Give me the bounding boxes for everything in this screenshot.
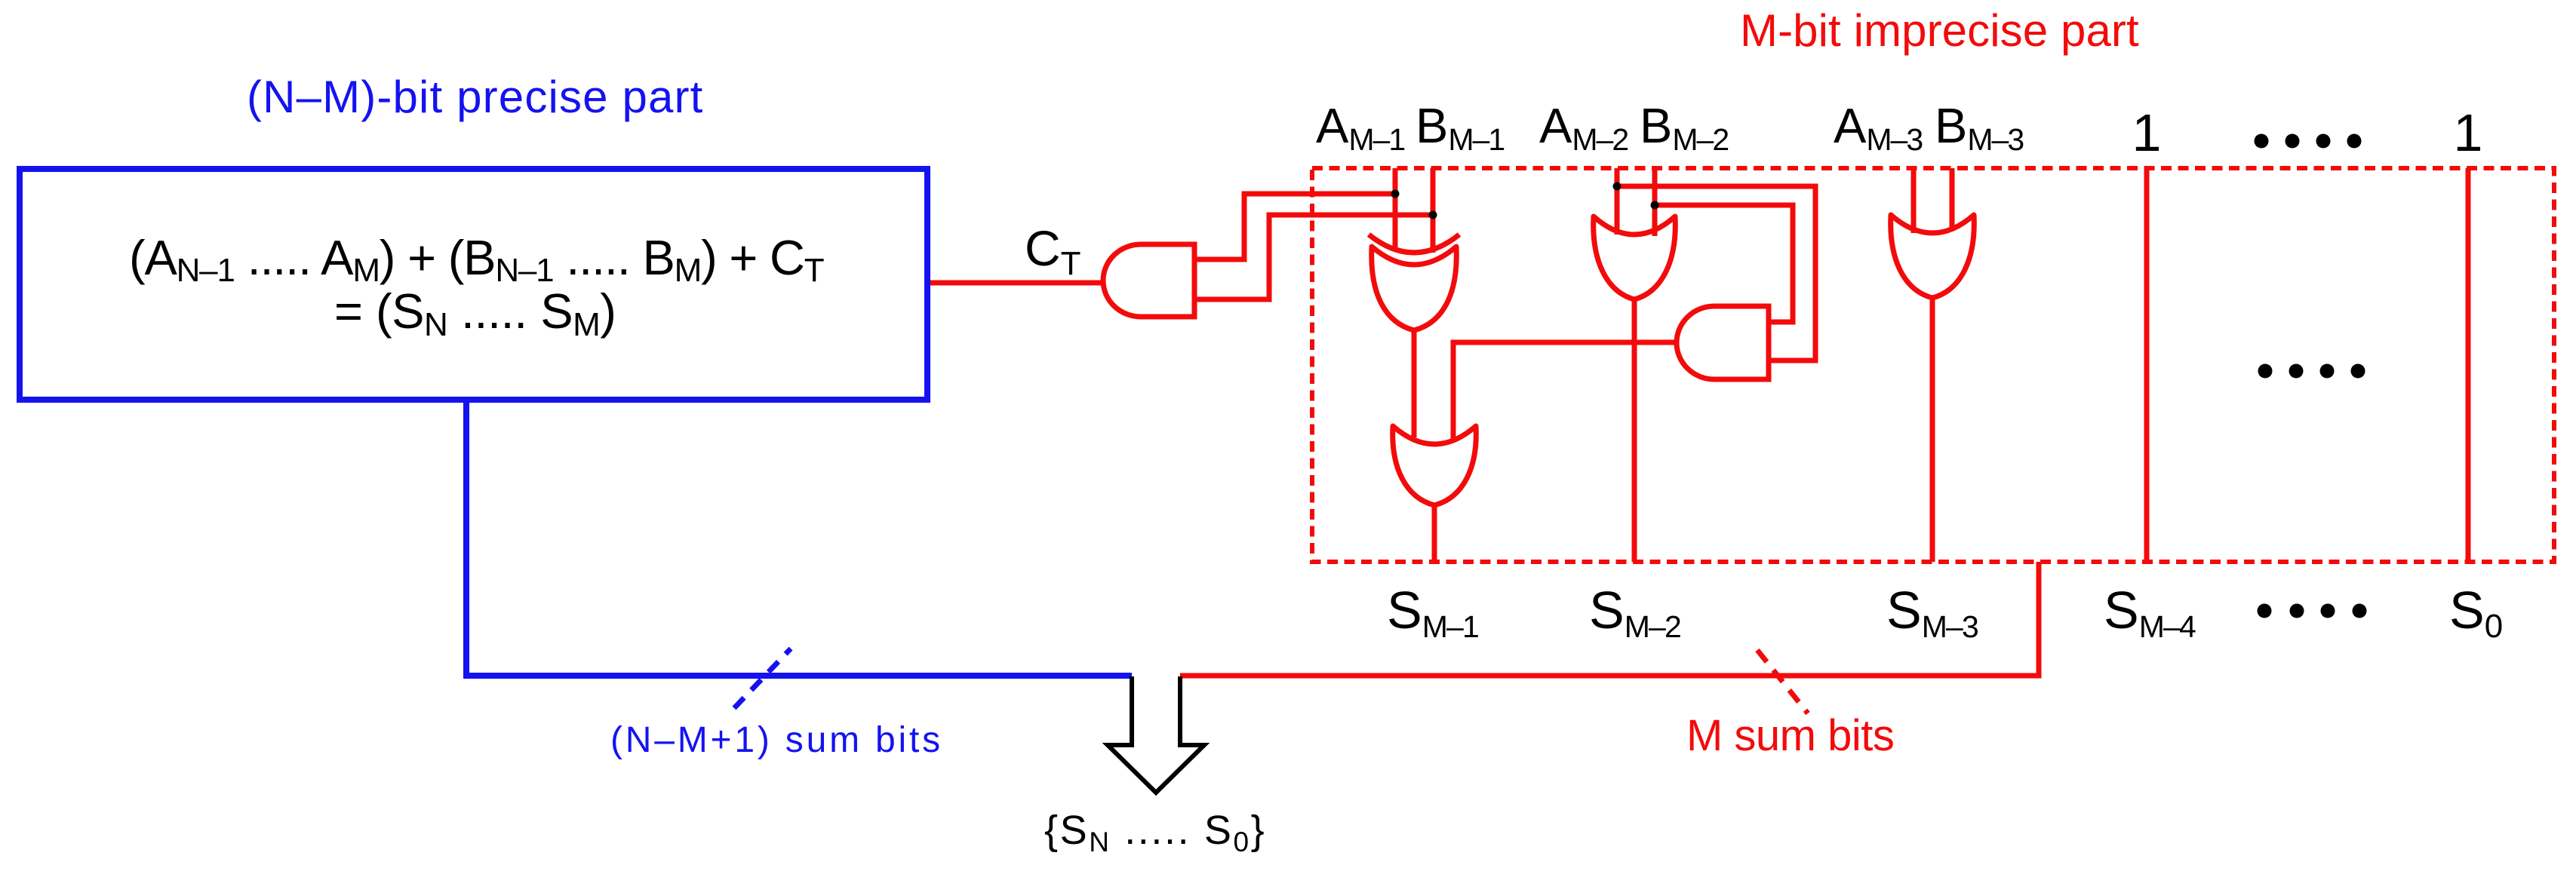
svg-text:(N–M+1) sum bits: (N–M+1) sum bits [610, 720, 943, 760]
wire: X1 output to O1 [1412, 330, 1417, 437]
junction dot B M-2 [1651, 201, 1659, 210]
wire: U2 output to O1 right input [1453, 342, 1676, 441]
wire: input A M-2 [1615, 168, 1620, 235]
junction dot A M-1 [1391, 190, 1400, 198]
svg-text:{SN ..... S0}: {SN ..... S0} [1044, 808, 1266, 857]
wire: blue sum bus from precise box [466, 400, 1132, 676]
result arrow [1108, 676, 1204, 793]
OR gate O2 (sum M-2) [1594, 216, 1676, 299]
XOR gate X1 (bit M-1) [1369, 235, 1459, 330]
wire: input A M-3 [1911, 168, 1917, 233]
svg-text:1: 1 [2454, 103, 2483, 162]
wire: U1 upper input to A M-1 column [1194, 194, 1393, 259]
wire: B M-2 to U2 upper input [1655, 205, 1793, 322]
svg-text:M-bit imprecise part: M-bit imprecise part [1740, 5, 2139, 56]
svg-text:(N–M)-bit precise part: (N–M)-bit precise part [247, 72, 703, 122]
AND gate U1 (carry truncation AND) [1103, 244, 1194, 317]
wire: CT from AND gate to precise box [930, 281, 1103, 286]
wire: S M-2 output [1632, 299, 1637, 562]
svg-text:1: 1 [2132, 103, 2162, 162]
OR gate O1 (sum M-1) [1393, 426, 1477, 505]
precise adder box [20, 169, 927, 400]
wire: bit 0 constant line [2466, 168, 2471, 562]
wire: bit M-4 constant line [2144, 168, 2150, 562]
imprecise part dashed box [1312, 168, 2554, 562]
junction dot A M-2 [1613, 182, 1622, 191]
bottom ellipsis dots [2258, 604, 2367, 618]
wire: A M-2 to U2 lower input [1617, 186, 1815, 360]
OR gate O3 (sum M-3) [1891, 215, 1975, 298]
wire: input B M-2 [1652, 168, 1658, 236]
svg-text:M sum bits: M sum bits [1686, 711, 1894, 760]
middle ellipsis dots [2258, 364, 2365, 379]
top ellipsis dots [2255, 134, 2362, 149]
red bus break slash [1757, 650, 1808, 713]
wire: input A M-1 [1393, 168, 1398, 250]
AND gate U2 (carry of bit M-2) [1677, 306, 1769, 379]
wire: U1 lower input to B M-1 column [1194, 215, 1431, 299]
wire: S M-3 output [1930, 298, 1935, 562]
wire: S M-1 output [1432, 505, 1437, 562]
junction dot B M-1 [1429, 211, 1437, 219]
wire: input B M-3 [1950, 168, 1955, 231]
wire: input B M-1 [1431, 168, 1436, 253]
wire: red sum bus from imprecise box [1180, 562, 2039, 676]
blue bus break slash [734, 649, 791, 708]
